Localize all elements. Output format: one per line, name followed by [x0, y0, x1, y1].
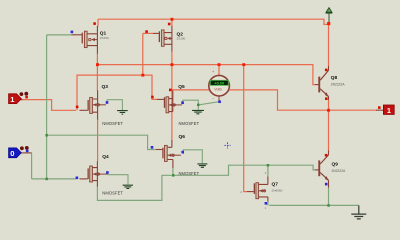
red state square Q1 drain	[93, 22, 96, 25]
wire green bottom ground rail	[268, 165, 359, 205]
svg-text:Q8: Q8	[331, 75, 338, 81]
red state square Q5 gate	[151, 96, 154, 99]
ground (bottom right)	[351, 205, 366, 219]
svg-text:Q6: Q6	[179, 134, 186, 140]
voltmeter	[209, 70, 230, 101]
blue state square Q6 gate	[151, 146, 154, 149]
transistor Q8 2N2222A NPN	[315, 66, 329, 100]
green junction dot (267.9,165.2)	[267, 164, 270, 167]
blue state square voltmeter minus	[218, 100, 221, 103]
wire Q3 source to ground	[107, 100, 122, 111]
red state square output probe	[378, 106, 381, 109]
junction dot (219,64.6)	[218, 63, 221, 66]
ground (Q3)	[117, 111, 128, 115]
red state square Q2 drain	[168, 23, 171, 26]
green junction dot (173.2,175.3)	[172, 174, 175, 177]
wire Q4 source to ground	[108, 175, 128, 185]
svg-text:0: 0	[10, 149, 14, 158]
red state square Q3 gate	[76, 106, 79, 109]
red state square Q8 emitter	[325, 97, 328, 100]
blue state square Q9 emitter	[325, 183, 328, 186]
wire Q2/Q6 column vertical	[171, 51, 173, 141]
logic input 1 (high)	[9, 92, 29, 104]
svg-text:Q3: Q3	[102, 84, 109, 90]
red state square Q5 drain	[169, 89, 172, 92]
junction dot (97.4,64.6)	[96, 63, 99, 66]
svg-text:1: 1	[387, 106, 391, 115]
svg-text:2SJ50: 2SJ50	[100, 36, 109, 40]
wire ground to voltmeter minus (diagonal)	[198, 102, 219, 105]
red state square Q2 gate	[145, 30, 148, 33]
blue state square Q7 source	[265, 202, 268, 205]
wire Q5 source to ground	[183, 100, 199, 110]
svg-text:2N6660: 2N6660	[272, 189, 283, 193]
blue state square Q4 source	[106, 171, 109, 174]
blue state square input 0 pin	[26, 150, 29, 153]
junction dot (328.7,23.5)	[327, 22, 330, 25]
svg-text:Q7: Q7	[272, 181, 279, 187]
transistor Q4 NMOSFET	[80, 162, 108, 187]
svg-text:Q4: Q4	[102, 154, 109, 160]
transistor Q2 2SJ50 PMOS	[153, 26, 172, 52]
wire voltmeter stem	[218, 65, 220, 76]
transistor Q1 2SJ50 PMOS	[72, 26, 98, 54]
logic probe output 1	[376, 105, 394, 115]
wire Q6 source to ground	[183, 150, 202, 164]
green junction dot (198.3,104.9)	[197, 104, 200, 107]
green junction dot (46.6,135.2)	[45, 134, 48, 137]
ground (Q6)	[197, 164, 207, 167]
blue state square Q1 gate	[71, 31, 74, 34]
red state square Q9 collector	[325, 154, 328, 157]
green junction dot (46.6,178.9)	[45, 178, 48, 181]
transistor Q7 2N6660	[247, 177, 268, 202]
svg-text:2N2222A: 2N2222A	[332, 169, 347, 173]
svg-text:2SJ50: 2SJ50	[177, 36, 186, 40]
svg-text:2N2222A: 2N2222A	[331, 83, 346, 87]
wire Q7 gate drop	[244, 65, 247, 192]
transistor Q5 NMOSFET	[157, 91, 182, 113]
green junction dot (328.5,205.4)	[327, 204, 330, 207]
logic input 0 (low)	[9, 146, 32, 158]
transistor Q3 NMOSFET	[80, 91, 106, 120]
svg-text:Q5: Q5	[178, 84, 185, 90]
wire Q1 column vertical	[96, 53, 98, 162]
blue state square Q3 source	[106, 101, 109, 104]
blue state square Q5 source	[181, 101, 184, 104]
red state square Q8 collector	[325, 69, 328, 72]
svg-text:Volts: Volts	[214, 88, 222, 92]
wire rail2 gate net (y=74.8)	[77, 33, 157, 110]
power terminal	[326, 8, 333, 24]
wire green input0 net	[32, 35, 156, 179]
svg-text:Q9: Q9	[332, 161, 339, 167]
junction dot (142.8,75.1)	[141, 74, 144, 77]
junction dot (171.9,64.6)	[171, 63, 174, 66]
blue state square Q6 source	[181, 151, 184, 154]
ground (Q4)	[123, 185, 133, 188]
transistor Q9 2N2222A NPN	[315, 151, 329, 188]
junction dot (243.7,64.6)	[242, 63, 245, 66]
origin marker (blue cross)	[224, 142, 230, 148]
wire input 1	[21, 100, 77, 111]
wire VDD rail top	[98, 19, 329, 66]
wire output net	[172, 90, 377, 151]
svg-text:NMOSFET: NMOSFET	[179, 171, 200, 176]
svg-text:NMOSFET: NMOSFET	[102, 191, 123, 196]
svg-text:+0.00: +0.00	[214, 81, 224, 86]
wire rail1 (y=64.6)	[97, 65, 314, 85]
transistor Q6 NMOSFET	[156, 140, 181, 168]
junction dot (171.9,19.2)	[171, 18, 174, 21]
blue state square Q4 gate	[76, 177, 79, 180]
svg-text:NMOSFET: NMOSFET	[102, 121, 123, 126]
svg-text:NMOSFET: NMOSFET	[179, 121, 200, 126]
ground (Q5)	[192, 110, 204, 113]
junction dot (328.5,110.2)	[327, 109, 330, 112]
wire green low rail bottom left	[97, 165, 314, 200]
